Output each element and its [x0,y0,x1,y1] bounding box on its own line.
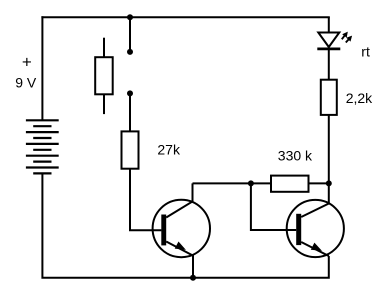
svg-text:+: + [22,53,32,72]
LED emission arrowhead 1 [342,32,348,38]
resistor 2,2k body [321,80,337,115]
wire 27k to Q1 base [130,169,161,231]
wire contact branch lower to 27k [129,93,131,131]
svg-text:9 V: 9 V [15,75,37,91]
svg-text:27k: 27k [157,142,181,158]
wire 2.2k to node B [328,115,330,184]
svg-text:330 k: 330 k [278,147,313,163]
resistor 330k body [271,176,309,192]
wire mid rail Q1 collector to node A [193,182,251,184]
wire Q1 emitter [166,242,193,279]
wire LED cathode to 2.2k [328,50,330,80]
node B junction [326,180,332,186]
wire Q2 emitter [301,242,329,256]
LED rt anode triangle [318,33,339,48]
wire top rail [41,16,329,18]
wire Q2 collector [301,183,329,217]
LED emission arrowhead 2 [346,36,352,42]
transistor Q1 emitter arrow [175,242,186,250]
wire node A to Q2 base [251,183,296,230]
resistor Rx test object body [95,38,113,114]
node top junction [127,14,133,20]
transistor Q1 body circle [153,200,210,257]
transistor Q2 base bar [296,214,301,245]
LED rt cathode bar [317,48,340,51]
wire battery positive lead (left rail top) [41,16,43,120]
wire 330k right lead [309,182,330,184]
wire contact branch upper [129,17,131,52]
node A junction [248,180,254,186]
wire LED anode lead [328,17,330,33]
svg-text:rt: rt [361,44,370,60]
transistor Q2 emitter arrow [311,243,322,251]
node bottom rail junction [190,275,196,281]
LED emission arrow 1 shaft [342,35,345,40]
LED emission arrow 2 shaft [346,39,350,43]
wire Q1 collector [166,183,192,217]
contact upper terminal [127,49,133,55]
battery BT1 9V plates [26,120,59,173]
contact lower terminal [127,90,133,96]
wire bottom rail [42,173,328,277]
wire 330k left lead [250,182,271,184]
svg-text:2,2k: 2,2k [346,90,373,106]
transistor Q1 base bar [161,215,166,246]
transistor Q2 body circle [287,200,344,257]
resistor 27k body [122,131,139,168]
